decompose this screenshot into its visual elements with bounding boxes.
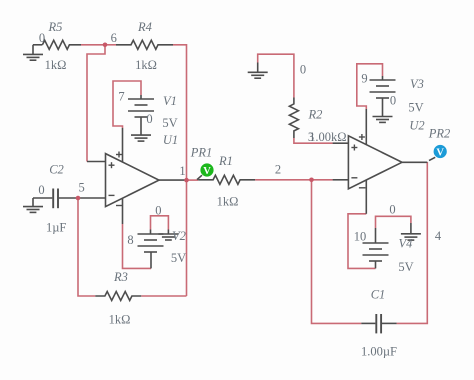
svg-text:2: 2 [275,163,281,177]
svg-text:C1: C1 [371,288,386,302]
svg-text:V1: V1 [163,94,177,108]
svg-text:6: 6 [111,31,117,45]
svg-text:0: 0 [146,112,152,126]
svg-text:5V: 5V [171,251,186,265]
svg-text:V: V [436,147,444,158]
svg-text:0: 0 [38,183,44,197]
svg-text:R4: R4 [137,20,152,34]
svg-text:5V: 5V [408,101,423,115]
svg-text:7: 7 [118,90,124,104]
svg-text:0: 0 [39,31,45,45]
svg-text:C2: C2 [49,163,64,177]
svg-text:1kΩ: 1kΩ [217,195,239,209]
svg-text:V2: V2 [172,229,186,243]
svg-text:R3: R3 [113,270,128,284]
svg-text:1.00kΩ: 1.00kΩ [309,130,346,144]
svg-text:U2: U2 [409,119,424,133]
svg-text:R1: R1 [218,154,233,168]
svg-text:4: 4 [435,229,442,243]
svg-text:5V: 5V [398,260,413,274]
svg-text:PR2: PR2 [428,127,451,141]
svg-text:1kΩ: 1kΩ [135,58,157,72]
svg-text:5: 5 [78,181,84,195]
svg-text:U1: U1 [163,133,178,147]
svg-text:5V: 5V [162,116,177,130]
svg-text:R2: R2 [308,108,323,122]
svg-text:1µF: 1µF [46,221,66,235]
svg-text:1kΩ: 1kΩ [45,58,67,72]
svg-text:R5: R5 [48,20,63,34]
svg-text:V3: V3 [410,77,424,91]
svg-text:1kΩ: 1kΩ [109,313,131,327]
svg-text:PR1: PR1 [190,146,213,160]
svg-text:9: 9 [361,72,367,86]
svg-text:0: 0 [300,63,306,77]
svg-text:0: 0 [155,204,161,218]
svg-text:V: V [203,166,211,177]
svg-text:3: 3 [308,130,314,144]
svg-text:0: 0 [390,94,396,108]
svg-text:10: 10 [354,230,367,244]
svg-text:0: 0 [389,203,395,217]
svg-text:V4: V4 [399,237,413,251]
svg-text:1.00µF: 1.00µF [361,345,397,359]
svg-text:8: 8 [127,233,133,247]
svg-text:1: 1 [179,164,185,178]
